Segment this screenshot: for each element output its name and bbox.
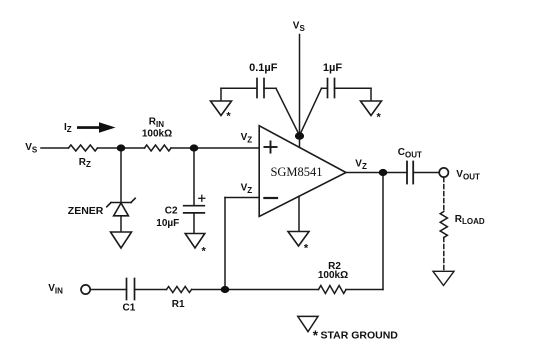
svg-text:*: * [377,112,382,124]
svg-text:100kΩ: 100kΩ [142,129,172,140]
wire 1uF left lead [322,87,328,89]
wire node A down to zener [120,148,122,203]
op-amp minus input marker [264,197,277,199]
resistor RZ [69,145,98,151]
svg-text:STAR GROUND: STAR GROUND [321,330,399,342]
resistor R1 [167,287,192,293]
svg-text:*: * [226,111,231,123]
wire R2 to node C [192,289,319,291]
capacitor 0.1uF plates [256,79,258,98]
wire node B down to C2 [193,148,195,206]
wire op-amp negative ground pin [298,196,300,231]
supply pin junction dot [295,132,304,140]
svg-text:ZENER: ZENER [68,205,104,217]
capacitor COUT plates [406,162,408,184]
ground (C2, starred) [185,234,205,249]
ground (load, phantom) [433,271,454,285]
wire feedback bottom right segment [346,289,383,291]
wire 0.1uF left lead [221,87,257,89]
terminal VIN [81,285,90,294]
resistor RLOAD [440,212,447,238]
wire Vs to Rz [41,147,69,149]
wire C2 to ground [193,213,195,233]
terminal VOUT [439,168,448,177]
ground (star ground legend) [298,316,318,331]
wire to right star ground [370,88,372,101]
resistor R2 [319,286,347,294]
wire output node down to feedback [382,173,384,290]
op-amp U1 SGM8541 body [259,126,346,217]
wire Rz to Rin (through node A) [98,147,145,149]
wire dashed Vout to Rload [443,178,445,212]
wire Rin to op-amp + input [171,147,259,149]
ground (zener) [111,232,132,248]
resistor RIN [145,145,172,151]
capacitor C2 plates [184,206,205,213]
zener diode D1 [107,198,135,216]
capacitor 1uF plates [327,79,329,98]
svg-text:100kΩ: 100kΩ [318,270,348,281]
wire zener to ground [120,216,122,232]
node B junction dot [190,144,199,151]
svg-text:R1: R1 [172,299,185,310]
ground (0.1uF, starred) [211,101,232,116]
svg-text:1µF: 1µF [323,62,342,74]
svg-text:SGM8541: SGM8541 [270,165,322,179]
node C junction dot [221,286,230,293]
wire 0.1uF right lead [264,87,276,89]
wire Cout to Vout terminal [413,172,439,174]
wire node C up to minus input [224,198,226,290]
C2 polarity plus [199,195,205,201]
output node junction dot [379,169,388,176]
wire op-amp output to Cout [346,172,407,174]
svg-text:*: * [304,243,309,255]
svg-text:10µF: 10µF [156,218,179,229]
wire 1uF right lead [335,87,372,89]
node A junction dot [117,144,126,151]
svg-text:C2: C2 [165,206,178,217]
svg-text:0.1µF: 0.1µF [249,62,278,74]
wire to left star ground [220,88,222,101]
svg-text:*: * [313,328,319,343]
current arrow IZ [77,122,116,132]
wire dashed Rload to ground [443,238,445,271]
wire Vs supply vertical [299,35,301,148]
svg-text:*: * [202,246,207,258]
op-amp plus input marker [264,141,276,152]
ground (op-amp, starred) [288,232,309,247]
wire diagonal supply node to 1uF [300,88,322,135]
wire Vin terminal to C1 [90,289,126,291]
capacitor C1 plates [126,279,128,300]
wire C1 to R1 [135,289,167,291]
wire to op-amp minus input [225,197,259,199]
wire diagonal 0.1uF to supply node [276,88,300,135]
svg-text:C1: C1 [123,302,136,313]
ground (1uF, starred) [361,101,382,116]
